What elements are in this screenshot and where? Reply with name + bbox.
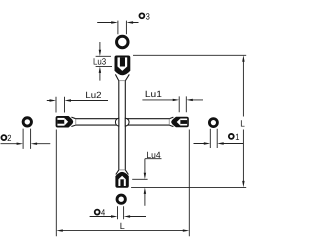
dim Lu3 arrow tails xyxy=(99,42,101,81)
node center hub fillets xyxy=(115,118,129,126)
label d1 xyxy=(229,134,234,139)
label d2 xyxy=(1,135,6,140)
wire right arm shaft xyxy=(125,119,169,125)
dim d3 arrows xyxy=(111,21,118,23)
dim Lu1 ticks xyxy=(179,96,186,112)
ring right (socket 1 ring) xyxy=(209,119,217,127)
svg-text:Lu4: Lu4 xyxy=(146,150,160,160)
dim Lu1 arrows xyxy=(173,99,180,101)
ring top (socket 3 ring) xyxy=(117,36,129,48)
ring left (socket 2 ring) xyxy=(23,118,31,126)
dim Lu3 ticks xyxy=(96,56,112,66)
dim L bottom arrows xyxy=(56,229,63,231)
svg-text:Lu3: Lu3 xyxy=(93,57,106,67)
dim L right line xyxy=(242,61,244,182)
dim d2 lines xyxy=(1,143,51,145)
wire left taper xyxy=(71,117,75,126)
wire taper junction marks xyxy=(76,81,169,170)
svg-text:Lu2: Lu2 xyxy=(85,90,101,100)
svg-text:4: 4 xyxy=(101,208,105,218)
wire right taper xyxy=(169,117,173,127)
dim L right arrows xyxy=(242,55,244,62)
dim Lu4 arrows xyxy=(144,173,146,180)
svg-text:1: 1 xyxy=(235,132,239,142)
arrowheads xyxy=(17,21,245,232)
dim L bottom extension lines xyxy=(56,130,189,237)
dim Lu3 arrows xyxy=(99,50,101,57)
wire vertical shaft xyxy=(119,81,126,170)
dim Lu4 leader xyxy=(145,159,162,206)
wire top taper xyxy=(115,74,129,80)
dim d3 lines xyxy=(97,22,138,24)
label d3 xyxy=(139,13,144,18)
socket right U1 xyxy=(169,117,189,128)
dim d1 arrows xyxy=(204,142,211,144)
svg-text:3: 3 xyxy=(146,11,150,21)
dim d3 extension lines xyxy=(118,21,127,35)
dim d1 extension lines xyxy=(210,129,217,148)
wire bottom taper xyxy=(116,170,129,175)
dim Lu2 ticks xyxy=(56,97,65,113)
dim Lu4 ticks xyxy=(132,178,147,180)
dim L right bottom extension xyxy=(131,186,246,188)
dim L bottom line xyxy=(62,230,184,232)
socket left U2 xyxy=(56,116,76,128)
socket top U3 xyxy=(115,56,131,81)
dim d2 extension lines xyxy=(23,129,31,149)
svg-text:Lu1: Lu1 xyxy=(145,89,162,99)
dim d2 arrows xyxy=(17,143,24,145)
label d4 xyxy=(95,210,100,215)
dim d1 lines xyxy=(194,143,244,145)
dim L right extension top xyxy=(133,54,246,56)
dim d4 lines xyxy=(90,216,146,218)
svg-text:L: L xyxy=(120,221,125,231)
dim Lu1 lines xyxy=(142,99,203,101)
svg-text:2: 2 xyxy=(7,133,11,143)
dim Lu2 arrows xyxy=(50,99,57,101)
dim d4 extension lines xyxy=(118,206,124,219)
ring bottom (socket 4 ring) xyxy=(117,195,125,203)
wire left arm shaft xyxy=(76,119,119,125)
socket bottom U4 xyxy=(115,170,128,188)
dim Lu2 lines xyxy=(47,100,108,102)
dim d4 arrows xyxy=(111,215,118,217)
svg-text:L: L xyxy=(240,119,245,129)
